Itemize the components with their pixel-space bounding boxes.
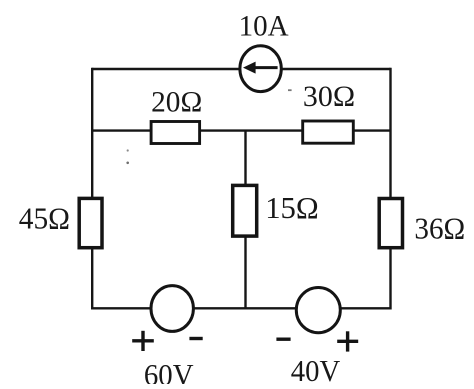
wire right vertical bbox=[389, 68, 391, 310]
stray speck near 30ohm label bbox=[288, 89, 292, 91]
V2 minus sign bbox=[276, 338, 290, 341]
svg-text:15Ω: 15Ω bbox=[265, 190, 319, 225]
current source arrow (points left) bbox=[252, 66, 278, 69]
voltage source V2 40V circle bbox=[296, 288, 340, 333]
svg-text:45Ω: 45Ω bbox=[19, 200, 70, 235]
svg-text:20Ω: 20Ω bbox=[151, 85, 202, 118]
wire bottom bbox=[92, 307, 390, 309]
resistor R 36ohm bbox=[379, 199, 402, 248]
voltage source V1 60V circle bbox=[151, 286, 193, 332]
resistor R 20ohm bbox=[151, 122, 200, 144]
V1 plus sign bbox=[132, 339, 154, 342]
resistor R 45ohm bbox=[79, 198, 102, 247]
resistor R 15ohm bbox=[233, 185, 257, 236]
svg-text:36Ω: 36Ω bbox=[414, 210, 465, 245]
current source I1 circle bbox=[240, 46, 281, 92]
V1 minus sign bbox=[189, 337, 202, 340]
stray colon specks left of middle bbox=[127, 149, 129, 151]
svg-text:10A: 10A bbox=[239, 10, 289, 43]
svg-text:60V: 60V bbox=[144, 357, 194, 384]
V2 plus sign bbox=[337, 340, 358, 343]
wire middle vertical bbox=[244, 131, 246, 309]
wire top (node between sources) bbox=[92, 68, 390, 70]
wire middle horizontal bbox=[92, 129, 390, 131]
svg-text:40V: 40V bbox=[291, 353, 341, 384]
wire left vertical bbox=[91, 68, 93, 310]
resistor R 30ohm bbox=[303, 121, 354, 143]
svg-text:30Ω: 30Ω bbox=[303, 80, 355, 113]
